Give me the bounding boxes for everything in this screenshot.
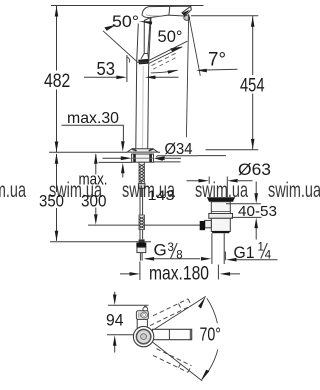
50deg no1: leader arrowhead bbox=[104, 25, 116, 31]
dim O63: extension ticks bbox=[209, 177, 227, 198]
waste body upper bbox=[211, 202, 230, 214]
dim O63: dimension line and arrows bbox=[187, 180, 253, 182]
swivel wedge lower line bbox=[151, 341, 203, 381]
svg-text:50°: 50° bbox=[112, 13, 139, 31]
50deg no2: arc bbox=[151, 70, 178, 73]
swivel wedge upper line bbox=[150, 296, 206, 332]
dim 482: dimension line bbox=[56, 6, 58, 152]
deck underside lines bbox=[99, 161, 181, 164]
svg-text:4: 4 bbox=[265, 249, 272, 261]
70deg arc bbox=[202, 298, 218, 379]
50deg no2: leader arrowhead bbox=[170, 47, 182, 52]
svg-text:swim.ua: swim.ua bbox=[268, 179, 320, 202]
svg-text:max.180: max.180 bbox=[149, 264, 209, 285]
dim max.30 leader bbox=[62, 125, 124, 141]
svg-text:G1: G1 bbox=[234, 243, 255, 262]
7 deg wedge: tilted line bbox=[189, 14, 201, 76]
50deg no1: wedge line bbox=[103, 31, 137, 62]
body axis hint bbox=[142, 66, 145, 150]
handle lower body bbox=[137, 319, 147, 330]
shank connector bbox=[138, 184, 145, 189]
svg-text:7°: 7° bbox=[208, 50, 226, 71]
deck surface line bbox=[49, 151, 160, 153]
dim 454: dimension line bbox=[252, 16, 254, 149]
hose end extension line (max300) bbox=[88, 224, 139, 226]
dim 454: arrowheads bbox=[251, 16, 255, 149]
pop-up waste flange bbox=[207, 197, 235, 199]
dim max300: dimension line bbox=[95, 154, 97, 214]
7 deg leader bbox=[207, 68, 238, 71]
svg-text:482: 482 bbox=[44, 71, 70, 92]
svg-text:70°: 70° bbox=[200, 325, 222, 345]
waste lock nut bbox=[209, 214, 233, 219]
dim 40-53: dimension line and arrows bbox=[255, 182, 257, 240]
svg-text:50°: 50° bbox=[158, 28, 183, 46]
70deg arc arrowheads bbox=[198, 295, 206, 308]
svg-text:3: 3 bbox=[168, 242, 174, 254]
rod port knob bbox=[200, 221, 205, 230]
aerator outlet ellipse bbox=[184, 16, 190, 21]
waste tailpipe bbox=[212, 233, 224, 264]
dim O34 inward arrows bbox=[103, 157, 182, 159]
dim max.180: right arrow and extension bbox=[218, 265, 240, 280]
spout inner shading bbox=[146, 15, 162, 16]
svg-text:G: G bbox=[154, 241, 167, 260]
50deg no2: wedge line up-right bbox=[149, 41, 187, 60]
housing left ticks bbox=[138, 312, 140, 318]
G3/8 line with outward arrows bbox=[146, 258, 200, 260]
dim 454: top extension line bbox=[191, 15, 258, 17]
pipe below fitting bbox=[140, 253, 142, 261]
dashed spout position lower bbox=[153, 349, 192, 373]
housing inner dial bbox=[141, 312, 148, 318]
spout tip aerator block bbox=[182, 6, 191, 16]
svg-text:40-53: 40-53 bbox=[238, 203, 277, 220]
lever (front view, hanging) bbox=[144, 18, 150, 54]
hose end extension line (350) bbox=[50, 241, 151, 243]
supply pipe lower bbox=[140, 230, 143, 240]
svg-text:swim.ua: swim.ua bbox=[0, 179, 26, 202]
spout (front view) bbox=[142, 6, 191, 17]
G 3/8 slash bbox=[171, 243, 178, 258]
waste bottom collar bbox=[212, 231, 229, 233]
dashed spout position upper bbox=[150, 299, 192, 326]
handle housing box bbox=[136, 311, 148, 320]
dim 53: extension line bbox=[126, 55, 128, 82]
7 deg wedge: vertical line bbox=[186, 14, 188, 137]
spout joint line bbox=[168, 6, 171, 15]
dim 350: dimension line bbox=[56, 154, 58, 241]
dim 482: arrowheads bbox=[55, 6, 59, 152]
supply pipe upper bbox=[140, 188, 143, 215]
dim O34 label leader bbox=[156, 156, 226, 157]
50deg no1: closed-lever arrow bbox=[139, 21, 153, 25]
dim 94: upper extension line bbox=[108, 304, 148, 306]
dim 454: bottom extension line bbox=[206, 149, 259, 151]
mounting washer below deck bbox=[132, 154, 154, 162]
G1 1/4 slash bbox=[261, 243, 267, 258]
svg-text:1: 1 bbox=[258, 241, 264, 253]
base flange bbox=[127, 149, 158, 152]
handle knob bbox=[143, 307, 148, 312]
svg-text:Ø63: Ø63 bbox=[238, 160, 271, 179]
waste body lower bbox=[211, 218, 230, 231]
hose junction node bbox=[139, 239, 145, 244]
faucet body column bbox=[136, 18, 151, 149]
svg-text:143: 143 bbox=[148, 188, 175, 203]
braided hose (hatched) bbox=[139, 215, 144, 230]
svg-text:53: 53 bbox=[97, 59, 116, 79]
G3/8 fitting bbox=[136, 243, 146, 248]
dim max.30 arrows bbox=[121, 141, 125, 173]
svg-text:8: 8 bbox=[176, 249, 182, 261]
rod port on waste bbox=[205, 220, 212, 227]
dashed open lever bbox=[152, 52, 178, 65]
lever tip shading bbox=[138, 59, 149, 65]
dim 53: line and arrows bbox=[84, 76, 179, 78]
dim 482: top extension line bbox=[51, 5, 204, 7]
50deg no2: leader line bbox=[149, 47, 182, 64]
dim 350: arrowheads bbox=[55, 153, 59, 241]
top view base circle bbox=[133, 326, 153, 346]
G1 1/4 leader bbox=[225, 252, 277, 261]
pop-up rod (horizontal) bbox=[144, 224, 205, 226]
top view spout bar bbox=[153, 329, 192, 339]
svg-text:454: 454 bbox=[240, 76, 265, 97]
dim 40-53: extension lines bbox=[226, 204, 262, 218]
svg-text:94: 94 bbox=[106, 311, 124, 329]
svg-text:max.30: max.30 bbox=[67, 110, 119, 127]
dim max.180: left arrow bbox=[120, 262, 140, 281]
threaded shank (hatched) bbox=[139, 162, 144, 183]
svg-text:swim.ua: swim.ua bbox=[49, 179, 102, 202]
50deg no1: arc hook bbox=[127, 57, 130, 63]
svg-text:Ø34: Ø34 bbox=[165, 141, 193, 158]
dashed open lever lower edge bbox=[153, 58, 175, 69]
handle knob pin bbox=[144, 306, 146, 308]
svg-text:swim.ua: swim.ua bbox=[195, 179, 248, 202]
dim 94: lower extension line bbox=[107, 334, 134, 336]
dim 94: dimension line and arrows bbox=[114, 292, 116, 353]
dim max300: arrowheads bbox=[94, 153, 98, 225]
